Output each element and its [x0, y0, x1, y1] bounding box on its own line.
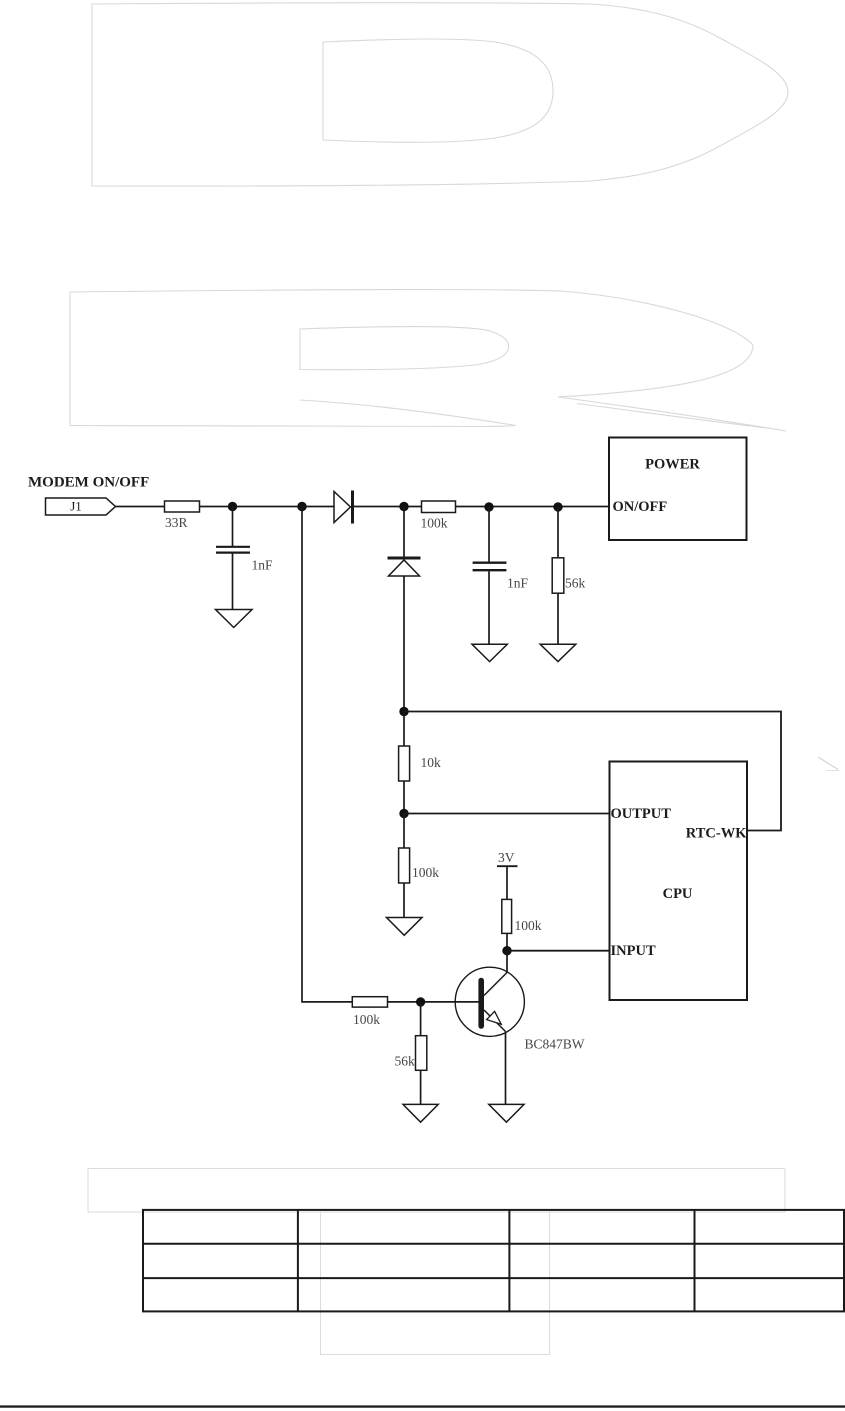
svg-text:J1: J1 [70, 499, 82, 514]
resistor 33R [165, 501, 200, 512]
node junction at C2 [484, 502, 493, 511]
ground below 56k base [403, 1104, 438, 1122]
svg-text:3V: 3V [498, 850, 515, 865]
svg-text:1nF: 1nF [252, 558, 274, 573]
long wire from node down-left to transistor base row [302, 507, 352, 1002]
node junction dot at long wire [297, 502, 306, 511]
ground below 100k [387, 918, 423, 936]
node junction dot at C1 [228, 502, 237, 511]
ground below emitter [489, 1104, 524, 1122]
wire base row [388, 1001, 479, 1003]
watermark letter R outline [70, 289, 786, 431]
table [143, 1210, 844, 1312]
watermark rectangle upper (bottom of page) [88, 1169, 785, 1213]
resistor 10k [403, 712, 405, 747]
watermark stray mark top-right [818, 757, 839, 771]
wire RTC-WK loop [404, 712, 781, 831]
svg-text:BC847BW: BC847BW [525, 1037, 585, 1052]
watermark letter D outline [92, 3, 788, 186]
ground below C1 [216, 610, 253, 628]
wire R1 to node [200, 506, 303, 508]
diode D1 [334, 491, 353, 524]
transistor Q1 BC847BW [455, 951, 524, 1105]
svg-text:56k: 56k [395, 1054, 416, 1069]
wire J1 to R1 [116, 506, 165, 508]
node junction at 56k [553, 502, 562, 511]
resistor 100k (pull-up) [502, 899, 512, 933]
ground below C2 [472, 644, 507, 661]
bottom rule [0, 1405, 845, 1407]
capacitor C2 1nF [488, 507, 490, 562]
node junction input [502, 946, 511, 955]
wire OUTPUT [404, 813, 610, 815]
POWER box [609, 438, 747, 541]
resistor 100k (mid) [403, 814, 405, 849]
wire INPUT [507, 950, 610, 952]
node junction base [416, 997, 425, 1006]
ground below 56k [540, 644, 576, 661]
svg-text:100k: 100k [412, 865, 439, 880]
svg-text:33R: 33R [165, 515, 188, 530]
svg-text:10k: 10k [421, 755, 442, 770]
wire D1 to node [353, 506, 422, 508]
svg-text:ON/OFF: ON/OFF [613, 499, 668, 515]
svg-text:100k: 100k [353, 1012, 380, 1027]
resistor 56k (base pulldown) [420, 1002, 422, 1036]
svg-text:100k: 100k [421, 516, 448, 531]
resistor 100k (base) [352, 997, 387, 1007]
svg-text:CPU: CPU [663, 886, 693, 902]
svg-text:RTC-WK: RTC-WK [686, 826, 747, 842]
CPU box [610, 762, 748, 1001]
svg-text:INPUT: INPUT [611, 943, 656, 959]
zener diode D2 [403, 507, 405, 557]
resistor 56k (top area) [557, 507, 559, 558]
connector J1 [46, 498, 116, 515]
svg-text:MODEM ON/OFF: MODEM ON/OFF [28, 475, 149, 491]
svg-text:POWER: POWER [645, 457, 700, 473]
capacitor C1 1nF [232, 507, 234, 547]
node junction top of 10k [399, 707, 408, 716]
svg-text:1nF: 1nF [507, 576, 529, 591]
svg-text:56k: 56k [565, 576, 586, 591]
node junction above zener [399, 502, 408, 511]
resistor 100k (top) [422, 501, 456, 513]
svg-text:OUTPUT: OUTPUT [611, 806, 672, 822]
wire 100k to power box [456, 506, 610, 508]
svg-text:100k: 100k [515, 918, 542, 933]
watermark rectangle lower (bottom of page) [321, 1212, 550, 1355]
node junction output [399, 809, 408, 818]
wire node to D1 [302, 506, 334, 508]
